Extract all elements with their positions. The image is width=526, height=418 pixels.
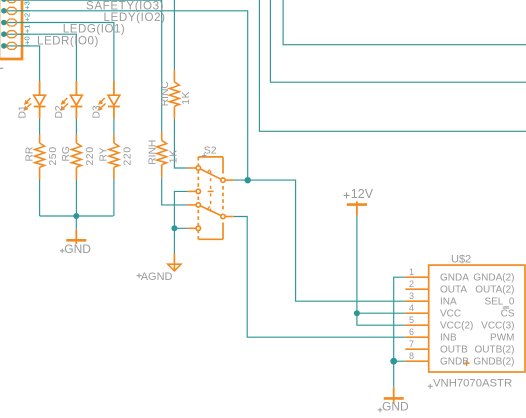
svg-text:+0: +0 [23, 36, 32, 45]
junction dot on connector pin 3 [1, 20, 7, 26]
GND origin cross right [378, 408, 383, 413]
junction dot on connector pin 5 [1, 43, 7, 49]
svg-text:OUTA: OUTA [440, 285, 467, 296]
LED D3 [98, 81, 120, 119]
AGND ground symbol [168, 254, 181, 271]
+12V origin cross [344, 192, 350, 198]
junction on LED ground rail [73, 213, 79, 219]
svg-text:12V: 12V [351, 187, 374, 201]
junction at IC pin 8 GNDB node [390, 358, 397, 365]
svg-text:LEDR(IO0): LEDR(IO0) [37, 34, 99, 47]
wire cropped net upper right C [259, 0, 526, 131]
svg-text:CS: CS [501, 309, 515, 320]
svg-text:RG: RG [61, 146, 72, 161]
svg-text:220: 220 [122, 146, 133, 165]
svg-text:6: 6 [409, 327, 414, 337]
S2 origin cross [202, 153, 207, 158]
resistor RY [109, 135, 119, 180]
wire net LEDR(IO0) from connector pin to LED D1 [4, 46, 40, 216]
IC pin 3 stub [405, 300, 428, 302]
junction dot on connector pin 4 [1, 31, 7, 37]
svg-text:VCC(3): VCC(3) [481, 321, 514, 332]
svg-text:GNDA(2): GNDA(2) [473, 273, 514, 284]
LED D1 [24, 81, 46, 119]
svg-text:OUTA(2): OUTA(2) [475, 285, 514, 296]
GND origin cross left [60, 249, 65, 254]
switch S2 [188, 157, 234, 239]
svg-text:250: 250 [48, 146, 59, 165]
IC pin 5 stub [405, 324, 428, 326]
connector pad pin 3 [7, 19, 16, 26]
svg-text:GNDA: GNDA [440, 273, 469, 284]
svg-text:RY: RY [99, 147, 110, 161]
wire net IC pin 1 GNDA to pin 8 GNDB and GND [394, 277, 406, 387]
svg-text:OUTB: OUTB [440, 345, 468, 356]
svg-text:VNH7070ASTR: VNH7070ASTR [433, 377, 512, 389]
wire net LEDY(IO2) from connector pin to LED D3 [4, 23, 114, 217]
svg-text:+3: +3 [23, 1, 32, 10]
cropped text fragment at left edge [0, 67, 3, 69]
IC pin name CS overbar [503, 307, 509, 309]
svg-text:SEL_0: SEL_0 [484, 297, 514, 308]
junction dot on connector pin 2 [1, 8, 7, 14]
resistor RINH [157, 132, 167, 177]
wire net SAFETY(IO3) from connector pin down to switch S2 common 1 [4, 11, 248, 181]
svg-text:GND: GND [382, 399, 409, 413]
svg-text:D2: D2 [54, 105, 65, 118]
GND ground symbol at IC [384, 387, 404, 403]
svg-text:4: 4 [409, 303, 414, 313]
resistor RG [72, 135, 82, 180]
wire ground rail joining LED resistors to GND [40, 216, 114, 230]
IC pin 1 stub [405, 276, 428, 278]
wire net from connector top pin to resistor RINH and S2 contact 3 [4, 0, 188, 205]
svg-text:8: 8 [409, 351, 414, 361]
svg-text:5: 5 [409, 315, 414, 325]
svg-text:S2: S2 [204, 145, 217, 157]
LED D2 [61, 81, 83, 119]
svg-text:AGND: AGND [141, 271, 173, 283]
resistor RINC [170, 70, 180, 119]
svg-text:VCC: VCC [440, 309, 461, 320]
connector pad pin 5 [7, 42, 16, 49]
connector pad pin 2 [7, 7, 16, 14]
junction at S2 common 1 node [245, 177, 251, 183]
wire net through resistor RINC to S2 contact 1 [174, 0, 187, 168]
IC pin 7 stub [405, 348, 428, 350]
junction at IC pin 4 VCC node [354, 310, 360, 316]
junction dot on connector pin 1 [1, 0, 7, 2]
svg-text:3: 3 [409, 291, 414, 301]
wire cropped net upper right B [270, 0, 526, 82]
svg-text:+1: +1 [23, 25, 32, 34]
wire net LEDG(IO1) from connector pin to LED D2 [4, 34, 77, 216]
AGND origin cross [137, 273, 142, 278]
resistor RR [35, 135, 45, 180]
svg-text:RINC: RINC [160, 81, 171, 107]
svg-text:RINH: RINH [148, 140, 159, 165]
svg-text:220: 220 [85, 146, 96, 165]
svg-text:2: 2 [409, 279, 414, 289]
op IC U$2 VNH7070ASTR body [429, 265, 525, 372]
IC pin 2 stub [405, 288, 428, 290]
svg-text:U$2: U$2 [451, 254, 471, 266]
svg-text:RR: RR [24, 147, 35, 162]
svg-text:D3: D3 [92, 105, 103, 118]
svg-text:INB: INB [440, 333, 457, 344]
wire overlays crossing connector box edge [17, 0, 30, 46]
IC pin 8 stub [405, 360, 428, 362]
svg-text:+2: +2 [23, 13, 32, 22]
svg-text:OUTB(2): OUTB(2) [475, 345, 515, 356]
IC U$2 value origin cross [428, 384, 433, 389]
wire net S2 contact 2 and contact 4 to AGND [174, 191, 187, 253]
IC origin cross on pin name GNDB [464, 360, 470, 366]
svg-text:7: 7 [409, 339, 414, 349]
svg-text:GNDB(2): GNDB(2) [473, 357, 514, 368]
svg-text:GNDB: GNDB [440, 357, 469, 368]
svg-text:INA: INA [440, 297, 457, 308]
+12V supply symbol [347, 201, 367, 216]
svg-text:D1: D1 [17, 105, 28, 118]
svg-text:1: 1 [409, 267, 414, 277]
svg-text:1K: 1K [181, 91, 192, 105]
IC pin 6 stub [405, 336, 428, 338]
connector pad pin 1 (cropped) [7, 0, 16, 3]
wire net S2 common 1 to IC pin 3 INA [234, 180, 405, 301]
svg-text:VCC(2): VCC(2) [440, 321, 473, 332]
wire net S2 common 2 to IC pin 6 INB [234, 217, 405, 338]
svg-text:1K: 1K [168, 149, 179, 163]
GND ground symbol for LED rail [66, 230, 86, 244]
connector pad pin 4 [7, 31, 16, 38]
wire cropped net upper right A [283, 0, 526, 45]
svg-text:PWM: PWM [490, 333, 514, 344]
svg-text:GND: GND [64, 242, 91, 256]
IC pin 4 stub [405, 312, 428, 314]
junction at AGND node [171, 225, 177, 231]
connector header (cropped at left edge) [0, 0, 22, 59]
wire net +12V supply to IC pins 4 and 5 [357, 216, 405, 325]
